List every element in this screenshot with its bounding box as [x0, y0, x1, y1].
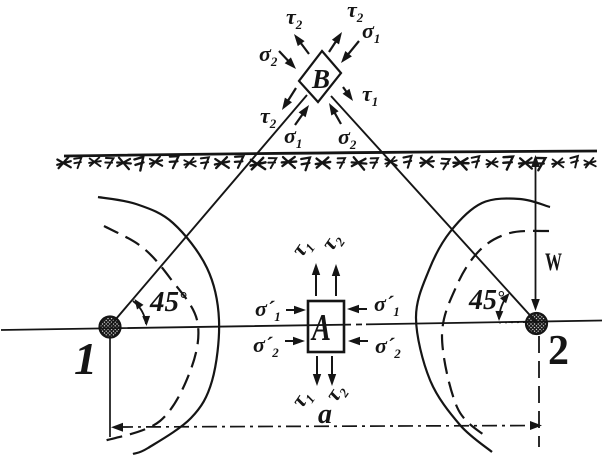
- svg-text:W: W: [545, 249, 562, 276]
- dotted line segment left of point 2: [499, 321, 526, 324]
- arrow tau2 top-left of B: [300, 42, 309, 54]
- wire line from point 1 to element B: [110, 95, 307, 326]
- 45 degree angle arc at point 1: [133, 301, 146, 324]
- arrow tau2 lower-left of B: [287, 88, 296, 102]
- horizontal center line through points 1 and 2: [1, 321, 602, 331]
- arrow tau1 top-left above A: [315, 273, 317, 296]
- arrow tau2 top-right of B: [329, 40, 337, 52]
- dashed arc around point 1: [104, 226, 198, 441]
- svg-text:a: a: [318, 399, 332, 430]
- solid arc around point 2: [416, 199, 550, 452]
- element B diamond: [299, 51, 341, 102]
- label tau1 below A (rotated): [286, 384, 318, 413]
- arrow sigma2 left of A lower: [285, 340, 295, 342]
- arrow sigma1 right of A upper: [357, 308, 367, 310]
- label tau1 above A (rotated): [286, 233, 318, 262]
- small gaps making center line dashed right of A: [351, 322, 356, 328]
- label tau2 above A (rotated): [316, 227, 349, 257]
- arrow tau1 right of B: [343, 87, 347, 93]
- solid arc around point 1: [98, 197, 219, 454]
- wire line from point 2 to element B: [331, 96, 537, 323]
- 45 degree angle arc at point 2: [499, 295, 508, 319]
- W dimension line: [535, 165, 537, 250]
- dimension line a: [118, 426, 536, 428]
- svg-text:1: 1: [74, 333, 97, 384]
- arrow sigma2 right of A lower: [358, 340, 368, 342]
- svg-text:A: A: [311, 307, 331, 349]
- vertical extension line below point 1: [109, 338, 111, 437]
- dashed arc around point 2: [442, 231, 549, 436]
- point 2 hatched circle: [526, 313, 547, 334]
- arrow sigma1 left of A upper: [286, 309, 296, 311]
- arrow tau1 below A left: [316, 356, 318, 376]
- ground hatching: [56, 156, 596, 171]
- arrow tau2 top-right above A: [335, 274, 337, 296]
- arrow sigma1 below-left of B (inward): [295, 113, 303, 125]
- arrow tau2 below A right: [331, 356, 333, 376]
- element A square: [308, 301, 344, 352]
- svg-text:2: 2: [548, 328, 569, 374]
- svg-text:B: B: [311, 64, 330, 94]
- point 1 hatched circle: [100, 317, 121, 338]
- arrow sigma1 upper-right of B (inward): [347, 41, 359, 55]
- vertical extension line below point 2 (dashed): [538, 336, 540, 447]
- ground surface line: [64, 151, 597, 156]
- label tau2 below A (rotated): [320, 378, 353, 408]
- arrow sigma2 upper-left of B (inward): [279, 51, 289, 62]
- arrow sigma2 below-right of B (inward): [334, 112, 341, 124]
